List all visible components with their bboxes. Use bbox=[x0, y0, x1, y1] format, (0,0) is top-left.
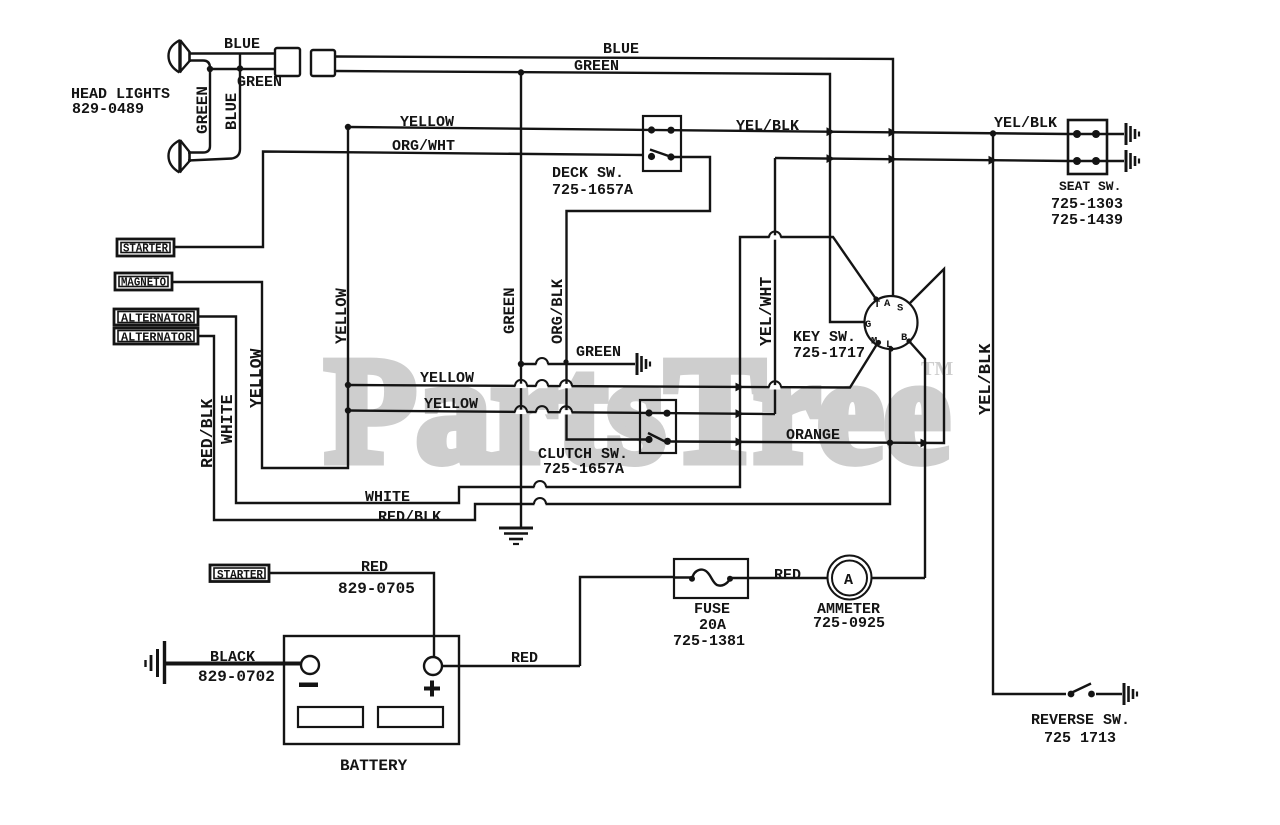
wire white + yel/wht bbox=[198, 237, 876, 503]
wire GREEN main to key G bbox=[335, 71, 865, 322]
wire green from top lamp bbox=[190, 61, 210, 69]
connection arrows bbox=[736, 127, 998, 447]
svg-text:SEAT SW.: SEAT SW. bbox=[1059, 179, 1121, 194]
wire ammeter left bbox=[674, 576, 692, 578]
svg-text:GREEN: GREEN bbox=[237, 74, 282, 91]
node yellow2 start bbox=[345, 407, 351, 413]
wire starter2 to battery bbox=[269, 573, 434, 657]
junction arrow yellow2 at yel/wht vert bbox=[736, 409, 745, 418]
junction arrow yel/blk line at green vert bbox=[827, 127, 836, 136]
clutch switch contact bottom-left bbox=[645, 436, 652, 443]
connector 2 bbox=[311, 50, 335, 76]
node yellow1 start bbox=[345, 382, 351, 388]
clutch switch contact top-right bbox=[663, 410, 670, 417]
fuse element bbox=[692, 570, 730, 586]
battery cell rect right bbox=[378, 707, 443, 727]
svg-text:YEL/BLK: YEL/BLK bbox=[736, 118, 799, 135]
key pin dots bbox=[873, 296, 911, 351]
reverse switch contact right bbox=[1088, 691, 1095, 698]
seat switch contact bottom-right bbox=[1092, 157, 1100, 165]
wire fuse to ammeter bbox=[730, 577, 925, 579]
svg-text:T: T bbox=[874, 299, 880, 311]
seat switch contact top-left bbox=[1073, 130, 1081, 138]
svg-text:829-0702: 829-0702 bbox=[198, 668, 275, 686]
svg-text:A: A bbox=[884, 298, 891, 310]
svg-text:ORG/BLK: ORG/BLK bbox=[549, 278, 567, 344]
svg-text:L: L bbox=[886, 339, 892, 351]
svg-text:YEL/BLK: YEL/BLK bbox=[994, 115, 1057, 132]
svg-text:ALTERNATOR: ALTERNATOR bbox=[121, 313, 192, 326]
wire green into connector bbox=[210, 68, 275, 70]
svg-text:KEY SW.: KEY SW. bbox=[793, 329, 856, 346]
svg-text:M: M bbox=[871, 336, 877, 348]
svg-text:RED: RED bbox=[774, 567, 801, 584]
wire seat drop vertical bbox=[774, 158, 776, 414]
svg-text:725-1303: 725-1303 bbox=[1051, 196, 1123, 213]
ground green wire bbox=[637, 353, 650, 375]
node orange / key L junction bbox=[887, 440, 893, 446]
svg-text:YELLOW: YELLOW bbox=[333, 287, 351, 344]
switch contact dots bbox=[645, 126, 1100, 697]
svg-text:725-0925: 725-0925 bbox=[813, 615, 885, 632]
svg-text:A: A bbox=[844, 572, 853, 589]
wire green center vertical bbox=[520, 73, 522, 527]
svg-text:ORANGE: ORANGE bbox=[786, 427, 840, 444]
junction arrow yellow1 at yel/wht vert bbox=[736, 383, 745, 392]
ground seat bottom bbox=[1126, 150, 1139, 172]
svg-text:S: S bbox=[897, 303, 903, 315]
wire reverse right bbox=[1096, 693, 1122, 695]
svg-text:725-1657A: 725-1657A bbox=[552, 182, 633, 199]
svg-text:RED: RED bbox=[361, 559, 388, 576]
svg-text:YEL/BLK: YEL/BLK bbox=[977, 343, 996, 415]
wire magneto yellow loop bbox=[172, 127, 348, 468]
svg-text:725-1439: 725-1439 bbox=[1051, 212, 1123, 229]
svg-text:829-0705: 829-0705 bbox=[338, 580, 415, 598]
svg-text:BLUE: BLUE bbox=[603, 41, 639, 58]
svg-text:BLACK: BLACK bbox=[210, 649, 255, 666]
connector 1 bbox=[275, 48, 300, 76]
wire BLUE main to key A bbox=[335, 57, 893, 297]
deck switch contact top-left bbox=[648, 126, 655, 133]
seat switch contact top-right bbox=[1092, 130, 1100, 138]
key switch circle bbox=[865, 296, 918, 349]
clutch switch contact bottom-right bbox=[664, 438, 671, 445]
svg-text:YELLOW: YELLOW bbox=[424, 396, 478, 413]
svg-text:G: G bbox=[865, 319, 871, 331]
wire green to ground bbox=[521, 363, 635, 365]
svg-text:725-1717: 725-1717 bbox=[793, 345, 865, 362]
svg-text:B: B bbox=[901, 332, 908, 344]
svg-text:ORG/WHT: ORG/WHT bbox=[392, 138, 455, 155]
svg-text:YELLOW: YELLOW bbox=[400, 114, 454, 131]
junction arrow seat line at green vert bbox=[827, 154, 836, 163]
wire battery red bbox=[442, 665, 580, 667]
deck switch blade bbox=[650, 150, 672, 158]
wire seat bottom line bbox=[775, 158, 1124, 161]
svg-text:BATTERY: BATTERY bbox=[340, 757, 408, 775]
wire red/blk to key L bbox=[198, 336, 890, 520]
ground reverse switch bbox=[1124, 683, 1137, 705]
deck switch contact bottom-right bbox=[667, 153, 674, 160]
svg-text:725 1713: 725 1713 bbox=[1044, 730, 1116, 747]
wire blue vertical to lower lamp bbox=[188, 69, 240, 161]
node yel/blk drop bbox=[990, 130, 996, 136]
svg-text:WHITE: WHITE bbox=[365, 489, 410, 506]
node fuse right terminal bbox=[727, 576, 733, 582]
node fuse left terminal bbox=[689, 576, 695, 582]
svg-text:STARTER: STARTER bbox=[123, 243, 168, 256]
seat switch contact bottom-left bbox=[1073, 157, 1081, 165]
ground seat top bbox=[1126, 123, 1139, 145]
svg-text:GREEN: GREEN bbox=[501, 287, 519, 334]
svg-text:RED/BLK: RED/BLK bbox=[378, 509, 441, 526]
svg-text:STARTER: STARTER bbox=[217, 569, 263, 582]
svg-text:BLUE: BLUE bbox=[223, 93, 241, 130]
node green ground branch bbox=[518, 361, 524, 367]
svg-text:REVERSE SW.: REVERSE SW. bbox=[1031, 712, 1130, 729]
battery cell rect left bbox=[298, 707, 363, 727]
ground battery black bbox=[146, 641, 165, 684]
svg-text:DECK SW.: DECK SW. bbox=[552, 165, 624, 182]
ground center bottom bbox=[499, 528, 533, 544]
svg-text:YEL/WHT: YEL/WHT bbox=[757, 277, 776, 346]
svg-text:20A: 20A bbox=[699, 617, 726, 634]
wire key B to ammeter bbox=[909, 341, 925, 578]
wire blue drop bbox=[239, 54, 241, 70]
node yellow top start bbox=[345, 124, 351, 130]
svg-text:BLUE: BLUE bbox=[224, 36, 260, 53]
clutch switch blade bbox=[648, 433, 668, 443]
svg-text:829-0489: 829-0489 bbox=[72, 101, 144, 118]
starter label box 1 bbox=[117, 239, 174, 256]
svg-text:GREEN: GREEN bbox=[194, 86, 212, 134]
svg-text:YELLOW: YELLOW bbox=[420, 370, 474, 387]
svg-text:725-1657A: 725-1657A bbox=[543, 461, 624, 478]
starter label box 2 bbox=[210, 565, 269, 582]
svg-text:FUSE: FUSE bbox=[694, 601, 730, 618]
junction arrow orange at yel/wht vert bbox=[736, 438, 745, 447]
svg-text:GREEN: GREEN bbox=[574, 58, 619, 75]
junction arrow orange at ammeter vert bbox=[921, 439, 930, 448]
battery plus terminal bbox=[424, 657, 442, 675]
wire yel/blk vertical to reverse bbox=[993, 134, 1066, 695]
junction arrow yel/blk line at blue vert bbox=[889, 128, 898, 137]
plus sign bbox=[424, 681, 440, 697]
wire blue headlight top bbox=[190, 52, 275, 54]
fuse box bbox=[674, 559, 748, 598]
svg-text:GREEN: GREEN bbox=[576, 344, 621, 361]
battery minus terminal bbox=[301, 656, 319, 674]
node green lamp junction bbox=[207, 66, 213, 72]
wire starter1 org/wht bbox=[174, 152, 643, 248]
svg-text:725-1381: 725-1381 bbox=[673, 633, 745, 650]
minus sign bbox=[299, 683, 318, 688]
wire orange to key S bbox=[671, 269, 944, 443]
wire yellow1 to key M bbox=[348, 343, 878, 388]
deck switch contact top-right bbox=[667, 127, 674, 134]
junction arrow seat line at yel/blk vert bbox=[989, 156, 998, 165]
deck switch contact bottom-left bbox=[648, 153, 655, 160]
battery box bbox=[284, 636, 459, 744]
wire yellow2 bbox=[348, 411, 775, 415]
node green main drop bbox=[518, 69, 524, 75]
svg-text:WHITE: WHITE bbox=[218, 394, 237, 444]
reverse switch blade bbox=[1072, 684, 1091, 693]
svg-text:RED/BLK: RED/BLK bbox=[198, 399, 217, 468]
headlight lamp bottom bbox=[169, 140, 191, 173]
wire black battery bbox=[166, 662, 301, 666]
svg-text:MAGNETO: MAGNETO bbox=[121, 277, 166, 290]
ammeter circles bbox=[828, 556, 872, 600]
node org/blk cross blob bbox=[563, 359, 568, 364]
wire YEL/BLK top to seat switch bbox=[348, 127, 1124, 134]
svg-text:ALTERNATOR: ALTERNATOR bbox=[121, 332, 192, 345]
magneto label box bbox=[115, 273, 172, 290]
reverse switch contact left bbox=[1068, 691, 1075, 698]
clutch switch contact top-left bbox=[645, 409, 652, 416]
seat switch box bbox=[1068, 120, 1107, 174]
clutch switch box bbox=[640, 400, 676, 453]
svg-text:RED: RED bbox=[511, 650, 538, 667]
wire deck to clutch org/blk bbox=[567, 157, 711, 440]
alternator label box 2 bbox=[114, 328, 198, 344]
wire red riser bbox=[580, 577, 674, 666]
wire green vertical to lower lamp bbox=[188, 68, 210, 153]
deck switch box bbox=[643, 116, 681, 171]
headlight lamp top bbox=[169, 40, 191, 73]
node blue lamp junction bbox=[237, 65, 243, 71]
svg-text:YELLOW: YELLOW bbox=[247, 348, 266, 408]
alternator label box 1 bbox=[114, 309, 198, 325]
wire hops bbox=[515, 232, 781, 507]
junction arrow seat line at blue vert bbox=[889, 155, 898, 164]
